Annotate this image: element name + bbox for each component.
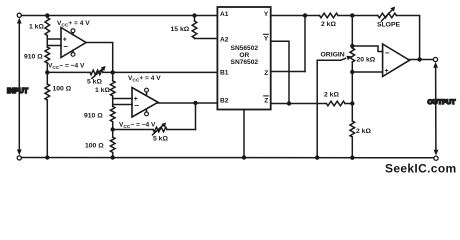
U1 VCC+ pin	[57, 20, 90, 35]
potentiometer R12 SLOPE	[377, 7, 401, 29]
svg-text:ORIGIN: ORIGIN	[321, 52, 345, 59]
svg-text:1 kΩ: 1 kΩ	[95, 87, 110, 94]
node origin top	[350, 44, 354, 48]
wire U1 output	[86, 43, 113, 73]
resistor R14 2k vert	[350, 121, 371, 137]
node origin chain rail	[350, 156, 354, 160]
wire slope feedback	[396, 16, 419, 60]
wire chain2 mid	[112, 96, 114, 106]
svg-text:VCC− = −4 V: VCC− = −4 V	[48, 63, 85, 71]
resistor R2 910	[24, 47, 50, 63]
IC U3 SN56502	[217, 7, 270, 110]
svg-text:100 Ω: 100 Ω	[53, 86, 72, 93]
svg-text:15 kΩ: 15 kΩ	[171, 26, 190, 33]
svg-text:VCC+ = 4 V: VCC+ = 4 V	[128, 75, 161, 83]
svg-text:−: −	[134, 101, 139, 110]
wire chain2 top	[112, 72, 114, 80]
node IC ground	[242, 155, 246, 159]
svg-text:VCC+ = 4 V: VCC+ = 4 V	[57, 20, 90, 28]
node chain1 bottom	[45, 155, 49, 159]
svg-text:OR: OR	[239, 52, 249, 59]
potentiometer R13 ORIGIN 20k	[321, 48, 376, 64]
svg-text:1 kΩ: 1 kΩ	[29, 24, 44, 31]
op-amp U4	[383, 44, 410, 77]
U2 VCC+ pin	[128, 75, 161, 94]
svg-text:Y: Y	[264, 36, 269, 43]
svg-text:−: −	[63, 42, 68, 51]
wire origin bottom to op3 plus	[352, 71, 382, 73]
wire B1 row left	[47, 71, 90, 73]
wire chain1 to node	[46, 63, 48, 84]
svg-text:B1: B1	[220, 69, 229, 76]
node chain2 feedback	[111, 127, 115, 131]
wire chain to rail	[351, 137, 353, 158]
wire rail 2k to origin chain	[338, 15, 378, 17]
output port line	[435, 67, 437, 151]
resistor R6 910	[84, 106, 115, 121]
svg-text:5 kΩ: 5 kΩ	[153, 136, 168, 143]
svg-text:A1: A1	[220, 11, 229, 18]
wire feedback2 row	[113, 129, 153, 131]
wire origin top to op3 minus	[352, 46, 382, 52]
svg-text:910 Ω: 910 Ω	[24, 54, 43, 61]
svg-text:2 kΩ: 2 kΩ	[356, 128, 371, 135]
resistor R1 1k	[29, 16, 50, 36]
svg-text:Z: Z	[264, 70, 268, 77]
svg-text:SLOPE: SLOPE	[377, 21, 401, 28]
wire B1 row right	[103, 71, 217, 73]
wire origin chain lower	[351, 62, 353, 121]
svg-text:VCC− = −4 V: VCC− = −4 V	[119, 122, 156, 130]
node Zbar chain junction	[350, 101, 354, 105]
svg-text:2 kΩ: 2 kΩ	[321, 21, 336, 28]
node origin chain top	[350, 13, 354, 17]
wire origin wiper	[317, 56, 351, 158]
wire bottom rail	[21, 157, 434, 159]
svg-text:A2: A2	[220, 36, 229, 43]
resistor R3 100	[45, 84, 72, 100]
svg-text:−: −	[385, 49, 390, 58]
wire Ybar row	[271, 41, 289, 103]
resistor R11 2k top	[320, 13, 339, 28]
node chain1 top	[45, 13, 49, 17]
U1 VCC- pin	[48, 50, 85, 71]
node U2 out	[193, 101, 197, 105]
wire op1 +input	[47, 38, 61, 40]
svg-text:20 kΩ: 20 kΩ	[357, 57, 376, 64]
node 15k top	[192, 13, 196, 17]
svg-text:INPUT: INPUT	[7, 88, 29, 95]
wire chain2 to node	[112, 122, 114, 137]
wire chain1 bottom	[46, 100, 48, 158]
wire IC ground pin	[243, 110, 245, 158]
resistor R7 100	[85, 137, 115, 152]
input terminal top	[17, 13, 22, 23]
potentiometer R8 5k	[153, 123, 169, 143]
wire Z row	[271, 71, 305, 73]
wire Zbar row	[271, 103, 327, 105]
wire op2 -input	[113, 104, 132, 106]
svg-text:SeekIC.com: SeekIC.com	[385, 162, 457, 176]
input terminal bottom	[17, 150, 22, 160]
op-amp U1	[61, 28, 86, 58]
wire Z vertical	[304, 16, 306, 72]
wire U2 output B2 row	[158, 102, 217, 104]
svg-text:+: +	[385, 68, 389, 75]
wire origin chain upper	[351, 16, 353, 49]
svg-text:Y: Y	[264, 11, 269, 18]
wire chain1 mid	[46, 36, 48, 48]
node Ybar-Zbar	[287, 101, 291, 105]
node chain1 B1row	[45, 70, 49, 74]
node U4 out	[417, 57, 421, 61]
svg-text:Z: Z	[264, 98, 268, 105]
node Z branch top	[303, 13, 307, 17]
wire top rail	[21, 15, 217, 17]
op-amp U2	[132, 88, 158, 118]
potentiometer R4 5k	[87, 66, 106, 86]
node wiper bottom	[315, 155, 319, 159]
resistor R5 1k	[95, 81, 115, 96]
wire op1 -input	[47, 45, 61, 47]
U2 VCC- pin	[119, 110, 156, 130]
svg-text:SN76502: SN76502	[231, 59, 259, 66]
svg-text:2 kΩ: 2 kΩ	[324, 92, 339, 99]
wire chain2 bottom	[112, 152, 114, 157]
svg-text:SN56502: SN56502	[231, 45, 259, 52]
svg-text:5 kΩ: 5 kΩ	[87, 79, 102, 86]
output terminal top	[433, 57, 438, 67]
node B1 junction	[111, 70, 115, 74]
svg-text:910 Ω: 910 Ω	[84, 113, 103, 120]
input port line	[18, 22, 20, 150]
wire feedback2 row right	[167, 129, 196, 131]
node chain2 bottom	[111, 155, 115, 159]
wire 15k to A2	[195, 37, 218, 40]
svg-text:B2: B2	[220, 98, 229, 105]
wire feedback2 vertical	[195, 103, 197, 130]
wire Zbar to chain	[345, 103, 352, 105]
node origin bottom	[350, 70, 354, 74]
wire Y row rail	[271, 15, 320, 17]
wire U4 output	[410, 59, 434, 61]
resistor R10 2k	[324, 92, 345, 106]
svg-text:OUTPUT: OUTPUT	[428, 99, 457, 106]
resistor R9 15k	[171, 16, 197, 39]
wire op2 +input	[113, 98, 132, 100]
output terminal bottom	[434, 150, 439, 160]
svg-text:100 Ω: 100 Ω	[85, 143, 104, 150]
